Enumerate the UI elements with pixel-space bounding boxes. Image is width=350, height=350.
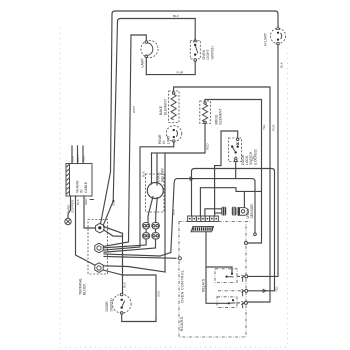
svg-text:WHT: WHT [76,155,80,162]
svg-text:BLK: BLK [112,199,116,206]
svg-text:BOARD: BOARD [180,316,184,331]
svg-text:BLK: BLK [157,290,161,297]
svg-text:SWITCH: SWITCH [109,298,113,312]
svg-text:YEL: YEL [275,286,279,292]
svg-text:LIMIT: LIMIT [166,135,170,144]
svg-text:BLK: BLK [70,155,74,162]
svg-text:BLK: BLK [173,14,180,18]
svg-text:PUR: PUR [271,124,275,131]
svg-text:ELEMENT: ELEMENT [219,108,223,124]
svg-text:BLOCK: BLOCK [83,283,87,295]
svg-text:ELEMENT: ELEMENT [163,99,167,115]
svg-text:BLK: BLK [122,281,126,288]
svg-text:RED: RED [81,155,85,162]
svg-text:YEL: YEL [262,124,266,130]
svg-text:BLK: BLK [172,208,176,215]
svg-text:RELAYS: RELAYS [201,278,205,292]
svg-text:RED: RED [84,198,88,205]
svg-text:SENSOR: SENSOR [250,204,254,219]
svg-text:LAMP: LAMP [141,58,145,68]
svg-text:OVEN CONTROL: OVEN CONTROL [180,270,184,303]
svg-text:BLK: BLK [141,170,145,177]
svg-text:PUR: PUR [177,71,184,75]
svg-text:WHT: WHT [132,106,136,113]
svg-text:BLK: BLK [280,61,284,68]
svg-text:CABLE: CABLE [84,181,88,193]
svg-text:SWITCH: SWITCH [210,46,214,60]
svg-text:YEL: YEL [251,155,255,161]
svg-text:BLK: BLK [76,198,80,205]
svg-text:RED: RED [206,143,210,150]
svg-text:ING FAN: ING FAN [161,168,165,182]
svg-text:HI LIMIT: HI LIMIT [264,33,268,46]
